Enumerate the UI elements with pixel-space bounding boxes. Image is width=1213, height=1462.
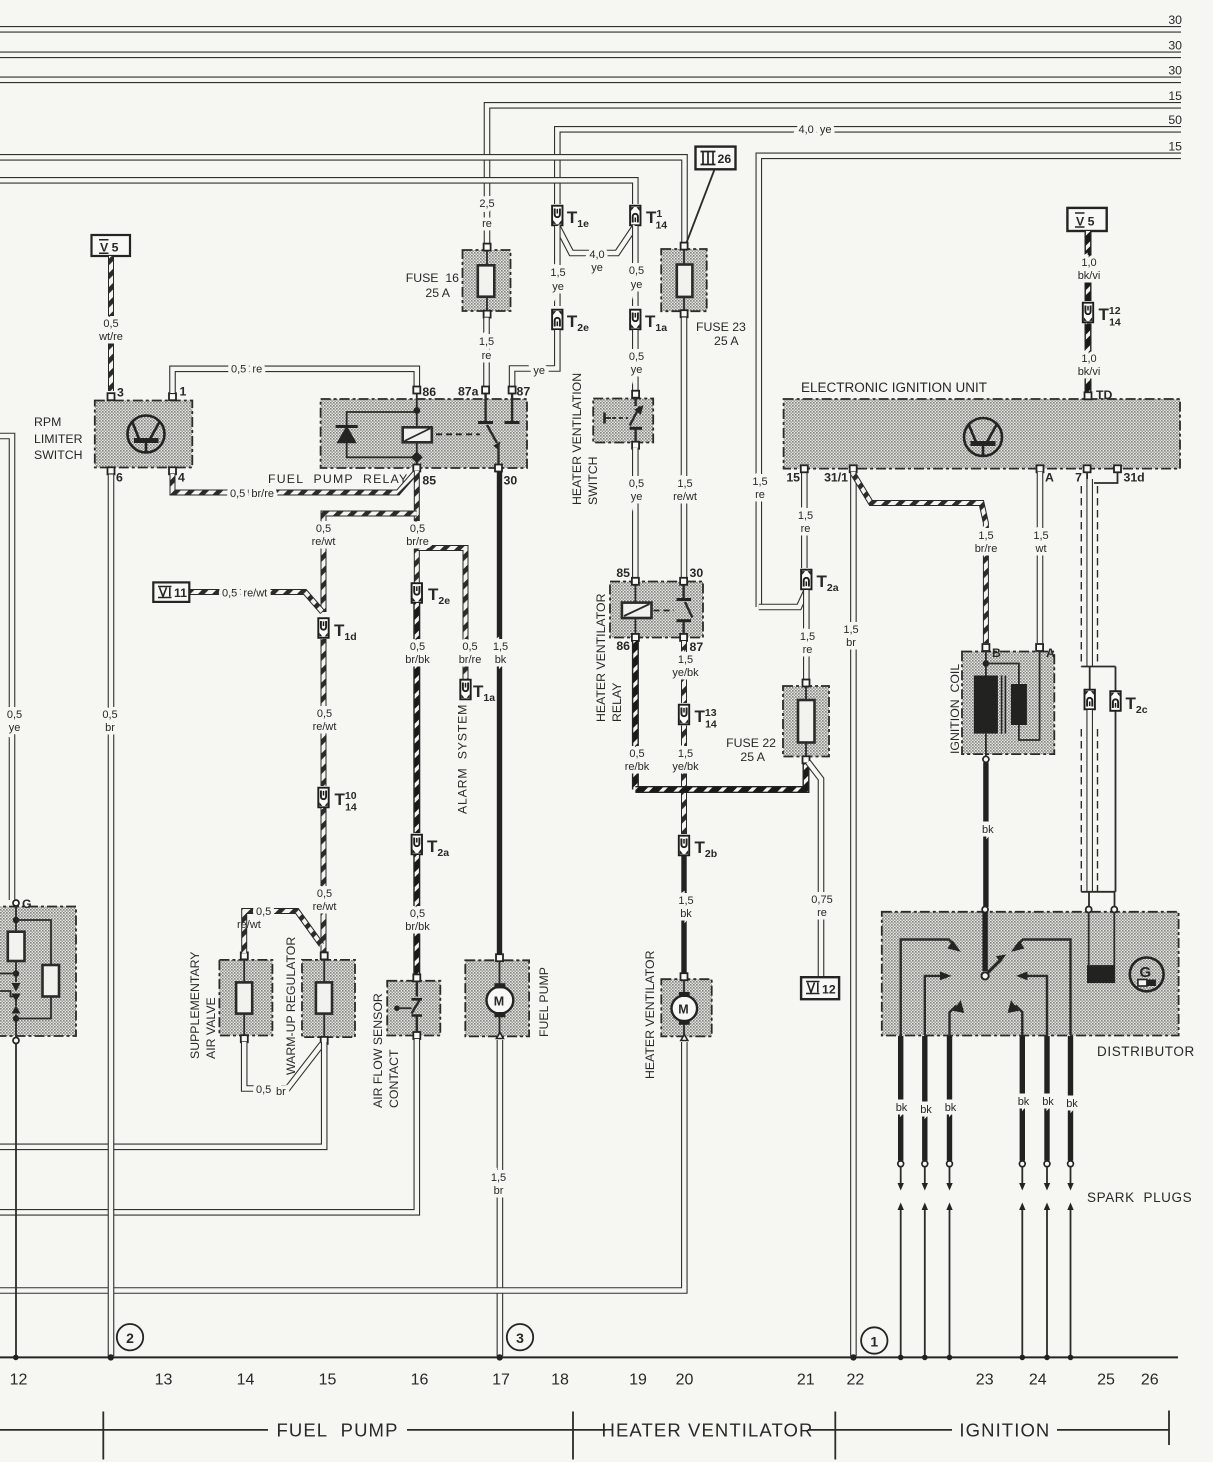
svg-text:24: 24	[1029, 1372, 1047, 1389]
svg-text:bk: bk	[896, 1102, 908, 1114]
wire 1,5 re/wt fuse23 to relay 30	[681, 318, 688, 579]
svg-text:25 A: 25 A	[425, 286, 450, 300]
svg-text:FUEL PUMP: FUEL PUMP	[276, 1420, 398, 1441]
svg-text:FUSE 23: FUSE 23	[696, 320, 746, 334]
svg-text:ye: ye	[9, 722, 21, 734]
bus 30 (pair 2)	[0, 51, 1181, 58]
svg-text:re: re	[803, 644, 813, 656]
svg-text:T2a: T2a	[427, 837, 449, 859]
svg-text:ye/bk: ye/bk	[672, 761, 699, 773]
svg-text:0,5: 0,5	[629, 351, 644, 363]
svg-text:re: re	[482, 218, 492, 230]
svg-text:ye: ye	[552, 281, 564, 293]
svg-text:HEATER VENTILATION: HEATER VENTILATION	[570, 373, 584, 505]
idle stabilizer box (left edge)	[0, 897, 76, 1044]
svg-text:re/bk: re/bk	[625, 761, 650, 773]
svg-text:re/wt: re/wt	[313, 901, 337, 913]
svg-text:B: B	[992, 646, 1001, 660]
wire branch loop to T1a alarm	[417, 548, 466, 679]
svg-text:SWITCH: SWITCH	[34, 448, 83, 462]
svg-text:ELECTRONIC IGNITION UNIT: ELECTRONIC IGNITION UNIT	[801, 380, 987, 395]
wire 0,5 re/wt from VI11 to T1d	[190, 592, 323, 612]
ground reference 1	[861, 1327, 887, 1353]
svg-text:0,5: 0,5	[629, 478, 644, 490]
svg-text:IGNITION: IGNITION	[959, 1420, 1050, 1441]
svg-text:re: re	[755, 489, 765, 501]
svg-text:bk: bk	[1042, 1096, 1054, 1108]
svg-text:87: 87	[517, 385, 531, 399]
fuel pump relay box	[268, 399, 527, 486]
svg-text:re: re	[482, 350, 492, 362]
svg-text:1,5: 1,5	[978, 530, 993, 542]
wire 0,5 br/bk from T2e down to T2a	[413, 603, 420, 833]
svg-text:11: 11	[174, 586, 187, 600]
ground rail junction dots	[13, 1354, 1073, 1360]
svg-text:0,5: 0,5	[256, 1084, 271, 1096]
svg-text:HEATER VENTILATOR: HEATER VENTILATOR	[594, 593, 608, 722]
svg-text:25 A: 25 A	[714, 334, 739, 348]
svg-text:12: 12	[822, 983, 836, 997]
svg-text:br/re: br/re	[975, 543, 998, 555]
connector T2c (pair)	[1085, 690, 1095, 710]
heater ventilation switch box	[593, 391, 653, 449]
svg-text:ye: ye	[591, 262, 603, 274]
svg-text:87a: 87a	[458, 385, 479, 399]
svg-text:4,0: 4,0	[589, 249, 604, 261]
connector T2b	[679, 836, 689, 856]
wire 1,5 ye/bk from relay 87 to T14-13	[681, 641, 687, 703]
svg-text:0,5: 0,5	[410, 641, 425, 653]
heater ventilator box	[643, 950, 712, 1079]
wire from III26 to fuse 23 top	[686, 170, 715, 245]
svg-text:AIR FLOW SENSOR: AIR FLOW SENSOR	[371, 993, 385, 1108]
svg-text:1,5: 1,5	[678, 654, 693, 666]
heater ventilator relay coil	[622, 585, 652, 634]
svg-text:FUSE 22: FUSE 22	[726, 736, 776, 750]
connector plug III26	[696, 147, 736, 170]
svg-text:87: 87	[690, 640, 704, 654]
connector T14-12	[1083, 303, 1093, 323]
air flow sensor contact box	[371, 974, 440, 1108]
svg-text:13: 13	[155, 1372, 173, 1389]
svg-text:0,5: 0,5	[462, 641, 477, 653]
section bracket ignition	[835, 1411, 1169, 1460]
svg-text:86: 86	[616, 639, 630, 653]
svg-text:4,0 ye: 4,0 ye	[798, 124, 831, 136]
svg-text:T1e: T1e	[567, 208, 589, 230]
svg-text:RELAY: RELAY	[610, 683, 624, 722]
heater ventilator relay contact	[654, 585, 693, 634]
svg-text:3: 3	[117, 386, 124, 400]
svg-text:T2e: T2e	[428, 585, 450, 607]
svg-text:FUEL PUMP: FUEL PUMP	[537, 967, 551, 1037]
connector T1d	[318, 618, 328, 638]
svg-text:bk/vi: bk/vi	[1078, 270, 1101, 282]
svg-text:ALARM SYSTEM: ALARM SYSTEM	[456, 704, 470, 814]
svg-text:50: 50	[1168, 113, 1182, 127]
svg-text:1,5: 1,5	[843, 624, 858, 636]
svg-text:17: 17	[492, 1372, 510, 1389]
heater ventilator motor	[672, 980, 698, 1041]
svg-text:RPM: RPM	[34, 415, 61, 429]
wire warm-up regulator return to left	[0, 1042, 324, 1147]
svg-text:T1a: T1a	[645, 312, 667, 334]
svg-text:br/bk: br/bk	[405, 654, 430, 666]
svg-text:bk/vi: bk/vi	[1078, 366, 1101, 378]
connector T14-13	[679, 705, 689, 725]
wire 1,5 br/re pin 31/1 to coil B	[853, 474, 986, 643]
wire 0,75 re fuse22 to VI12	[808, 762, 821, 976]
svg-text:br: br	[846, 637, 856, 649]
fuel pump motor	[487, 961, 514, 1039]
wire from idle stabilizer to ground rail	[15, 1044, 17, 1358]
svg-text:21: 21	[797, 1372, 815, 1389]
svg-text:T2b: T2b	[695, 838, 718, 860]
svg-text:LIMITER: LIMITER	[34, 432, 83, 446]
distributor condenser	[1087, 912, 1115, 983]
svg-text:AIR VALVE: AIR VALVE	[204, 997, 218, 1059]
svg-text:1,5: 1,5	[491, 1172, 506, 1184]
connector T2a (fuse22 column)	[801, 570, 811, 590]
wire air flow sensor return to left	[0, 1039, 417, 1212]
heater ventilation switch contact	[605, 398, 644, 442]
heater ventilator relay box	[610, 566, 703, 654]
svg-text:1,5: 1,5	[752, 476, 767, 488]
fuse F16	[406, 244, 511, 318]
fuse F22	[726, 680, 829, 765]
svg-text:19: 19	[629, 1372, 647, 1389]
wire 1,5 re from T2a to fuse 22	[803, 590, 810, 681]
svg-text:re/wt: re/wt	[312, 536, 336, 548]
connector T2a (air flow column)	[412, 835, 422, 855]
plug VI12	[801, 977, 839, 999]
svg-text:br: br	[276, 1086, 286, 1098]
svg-text:WARM-UP REGULATOR: WARM-UP REGULATOR	[284, 937, 298, 1075]
svg-text:7: 7	[1075, 471, 1082, 485]
wire 0,5 re/wt T1d to T14-10	[321, 639, 327, 786]
ground rail baseline	[0, 1356, 1178, 1358]
connector plug V5 (left)	[92, 235, 131, 256]
relay switch contact 87a-30	[436, 390, 520, 468]
connector T1e	[552, 206, 562, 226]
shielded bundle below T2c to distributor	[1081, 710, 1115, 906]
spark plugs arrows up from ground rail	[898, 1203, 1074, 1358]
svg-text:SPARK PLUGS: SPARK PLUGS	[1087, 1190, 1192, 1205]
connector T2e (fuse column)	[552, 310, 562, 330]
rpm limiter switch	[34, 385, 192, 485]
svg-text:1,5: 1,5	[678, 895, 693, 907]
relay pins	[413, 385, 530, 488]
svg-text:G: G	[22, 897, 32, 911]
distributor box	[882, 907, 1195, 1060]
distributor terminal paths with arrows	[901, 940, 1071, 1036]
bus 30 (pair 3)	[0, 77, 1181, 84]
svg-text:ye: ye	[631, 364, 643, 376]
wire 1,5 re EIU pin 15 down to T2a	[801, 472, 808, 568]
section bracket fuel pump	[0, 1412, 573, 1460]
svg-text:T2a: T2a	[817, 572, 839, 594]
spark gap arrows down	[898, 1168, 1074, 1191]
plug VI11	[153, 582, 189, 602]
svg-text:0,5: 0,5	[316, 523, 331, 535]
svg-text:T1d: T1d	[334, 621, 357, 643]
svg-text:br/re: br/re	[459, 654, 482, 666]
svg-text:26: 26	[718, 152, 732, 166]
svg-text:0,5: 0,5	[103, 318, 118, 330]
svg-text:12: 12	[10, 1372, 28, 1389]
svg-text:0,5: 0,5	[256, 906, 271, 918]
svg-text:14: 14	[237, 1372, 255, 1389]
supplementary air valve box	[188, 951, 272, 1059]
svg-text:30: 30	[1168, 39, 1182, 53]
section bracket heater ventilator	[573, 1412, 835, 1460]
svg-text:0,5: 0,5	[317, 888, 332, 900]
svg-text:T1214: T1214	[1099, 305, 1121, 329]
svg-text:1,5: 1,5	[493, 641, 508, 653]
connector T14-10	[318, 788, 328, 808]
svg-text:30: 30	[690, 566, 704, 580]
bus 50 (pair 5) with corner down to T1e	[557, 129, 1181, 204]
svg-text:V 5: V 5	[100, 241, 119, 255]
svg-text:0,5: 0,5	[317, 708, 332, 720]
svg-text:0,5: 0,5	[410, 908, 425, 920]
svg-text:25 A: 25 A	[740, 750, 765, 764]
wire 1,5 bk from T2b to heater ventilator	[681, 856, 686, 975]
ground reference 3	[507, 1324, 533, 1350]
svg-text:M: M	[494, 995, 504, 1009]
fuse F23	[661, 243, 746, 348]
svg-text:M: M	[678, 1003, 688, 1017]
svg-text:HEATER VENTILATOR: HEATER VENTILATOR	[643, 950, 657, 1079]
svg-text:SWITCH: SWITCH	[586, 457, 600, 506]
svg-text:wt/re: wt/re	[98, 331, 123, 343]
wire 0,5 ye from T1a to heater ventilation switch	[632, 330, 639, 394]
plug V5 (right)	[1067, 208, 1106, 231]
svg-text:T2c: T2c	[1126, 694, 1148, 716]
relay diode	[336, 412, 417, 457]
svg-text:bk: bk	[920, 1104, 932, 1116]
svg-text:ye: ye	[533, 365, 545, 377]
svg-text:re: re	[801, 523, 811, 535]
svg-text:85: 85	[616, 566, 630, 580]
svg-text:0,5 br/re: 0,5 br/re	[230, 488, 274, 500]
bus wire (pair 7) corner down to T14-1	[0, 180, 635, 204]
wire branch to T1d column	[324, 514, 417, 613]
svg-text:br/bk: br/bk	[405, 921, 430, 933]
svg-text:TD: TD	[1096, 388, 1113, 402]
svg-text:T1a: T1a	[473, 682, 495, 704]
svg-text:30: 30	[504, 474, 518, 488]
svg-text:1,5: 1,5	[550, 267, 565, 279]
svg-text:0,5: 0,5	[102, 709, 117, 721]
ground reference 2	[117, 1324, 143, 1350]
svg-text:30: 30	[1168, 64, 1182, 78]
svg-text:bk: bk	[982, 824, 994, 836]
svg-text:wt: wt	[1035, 543, 1047, 555]
wire 1,5 ye/bk from T14-13 down to T2b	[681, 726, 687, 835]
wire 0,5 br air valve bottom link	[244, 1042, 322, 1089]
svg-text:0,5 re: 0,5 re	[231, 364, 262, 376]
ignition coil box	[948, 644, 1055, 762]
connector T2e (85 column)	[412, 583, 422, 603]
svg-text:3: 3	[516, 1330, 524, 1346]
svg-text:1: 1	[180, 385, 187, 399]
svg-text:br: br	[105, 722, 115, 734]
svg-text:1,0: 1,0	[1081, 353, 1096, 365]
wire 0,5 ye switch to relay 85	[632, 448, 639, 578]
svg-text:T114: T114	[646, 208, 667, 232]
shielded bundle from pins 7 and 31d	[1081, 472, 1117, 691]
connector T14-1	[630, 206, 640, 226]
svg-text:30: 30	[1168, 13, 1182, 27]
svg-text:0,5: 0,5	[629, 748, 644, 760]
svg-text:re/wt: re/wt	[313, 721, 337, 733]
svg-text:15: 15	[1168, 89, 1182, 103]
wire 1,5 ye from T2e to relay pin 87	[512, 330, 557, 387]
wire bk coil to distributor	[983, 763, 988, 908]
svg-text:bk: bk	[1018, 1096, 1030, 1108]
svg-text:T1314: T1314	[695, 707, 717, 731]
svg-text:G: G	[1140, 964, 1152, 981]
connector T1a (alarm)	[460, 680, 470, 700]
svg-text:bk: bk	[945, 1102, 957, 1114]
svg-text:0,5: 0,5	[7, 709, 22, 721]
svg-text:0,5: 0,5	[629, 265, 644, 277]
wire 0,5 re from RPM pin 1 to relay pin 86	[173, 369, 417, 393]
spark wire end terminals	[898, 1161, 1074, 1167]
svg-text:bk: bk	[1066, 1098, 1078, 1110]
wire 0,5 re/bk from relay 86 down	[632, 641, 639, 790]
svg-text:26: 26	[1141, 1372, 1159, 1389]
svg-text:CONTACT: CONTACT	[387, 1049, 401, 1108]
svg-text:br/re: br/re	[406, 536, 429, 548]
wire 0,5 wt/re from V5 to RPM pin 3	[108, 256, 114, 391]
current track numbers	[10, 1372, 1159, 1389]
spark wire labels bk	[896, 1096, 1079, 1116]
svg-text:15: 15	[1168, 140, 1182, 154]
svg-text:1,5: 1,5	[479, 336, 494, 348]
wire 0,5 br RPM pin 6 to ground rail	[108, 475, 115, 1357]
wire 0,5 re/wt air valve top link	[244, 911, 321, 953]
wire 1,0 bk/vi from T14-12 to TD	[1085, 324, 1092, 393]
svg-text:ye/bk: ye/bk	[672, 667, 699, 679]
svg-text:0,5: 0,5	[410, 523, 425, 535]
wire heater ventilator return to left	[0, 1042, 684, 1291]
svg-text:re: re	[817, 907, 827, 919]
wire 1,5 bk from relay pin 30 to fuel pump	[497, 472, 502, 957]
svg-text:A: A	[1046, 646, 1055, 660]
svg-text:20: 20	[676, 1372, 694, 1389]
svg-text:15: 15	[319, 1372, 337, 1389]
svg-text:re/wt: re/wt	[673, 491, 697, 503]
svg-text:HEATER VENTILATOR: HEATER VENTILATOR	[602, 1420, 814, 1441]
svg-text:15: 15	[786, 471, 800, 485]
bus 15 (pair 6 right) corner down toward T2a	[759, 156, 1181, 607]
svg-text:0,5 re/wt: 0,5 re/wt	[222, 588, 267, 600]
warm-up regulator box	[284, 937, 355, 1075]
svg-text:85: 85	[422, 474, 436, 488]
svg-text:SUPPLEMENTARY: SUPPLEMENTARY	[188, 951, 202, 1059]
svg-text:22: 22	[847, 1372, 865, 1389]
svg-text:1,5: 1,5	[1033, 530, 1048, 542]
wire branch 85 column down	[414, 471, 420, 583]
svg-text:16: 16	[411, 1372, 429, 1389]
svg-text:0,75: 0,75	[811, 894, 832, 906]
wire 1,5 br fuel pump return to ground rail	[497, 1040, 504, 1356]
svg-text:bk: bk	[680, 908, 692, 920]
svg-text:86: 86	[422, 385, 436, 399]
svg-text:A: A	[1045, 471, 1054, 485]
electronic ignition unit box	[784, 380, 1180, 485]
wire 1,5 re from fuse16 to relay pin 87a	[483, 318, 490, 387]
svg-text:31d: 31d	[1124, 471, 1145, 485]
svg-text:1,5: 1,5	[678, 748, 693, 760]
svg-text:T1014: T1014	[335, 790, 357, 814]
wire 0,5 ye from left edge to idle stabilizer G	[0, 436, 12, 900]
svg-text:2: 2	[126, 1330, 134, 1346]
wire 1,5 br from pin 31/1 to ground rail	[850, 472, 857, 1356]
wire 0,5 br/bk from T2a to air flow sensor	[413, 855, 420, 977]
svg-text:31/1: 31/1	[824, 471, 848, 485]
svg-text:DISTRIBUTOR: DISTRIBUTOR	[1097, 1044, 1195, 1059]
svg-text:2,5: 2,5	[479, 198, 494, 210]
bus 15 (pair 6 left) corner down to fuse 23	[0, 157, 685, 244]
wire 1,0 bk/vi from V5 to T14-12	[1085, 231, 1092, 301]
svg-text:6: 6	[116, 471, 123, 485]
svg-text:FUSE 16: FUSE 16	[406, 271, 459, 285]
svg-text:23: 23	[976, 1372, 994, 1389]
hatched link wire fuse22 to 86-wire	[635, 760, 806, 790]
svg-text:1,5: 1,5	[798, 510, 813, 522]
svg-text:4: 4	[178, 471, 185, 485]
wire 0,5 ye from T14-1 down to T1a	[632, 226, 639, 306]
crossover wire 4,0 ye between T1e and T14-1	[557, 226, 595, 253]
wire 1,5 ye from T1e down to T2e	[554, 226, 561, 306]
svg-text:re/wt: re/wt	[237, 919, 261, 931]
wire 0,5 br/re RPM pin 4 to relay pin 85	[173, 473, 416, 493]
fuel pump box	[465, 954, 551, 1037]
svg-text:IGNITION COIL: IGNITION COIL	[948, 664, 962, 754]
svg-text:1,0: 1,0	[1081, 257, 1096, 269]
air flow sensor contact symbol	[394, 981, 422, 1032]
svg-text:18: 18	[551, 1372, 569, 1389]
svg-text:FUEL PUMP RELAY: FUEL PUMP RELAY	[268, 472, 408, 486]
wire 0,5 re/wt T14-10 to warm-up regulator	[321, 808, 327, 954]
spark plug wires bk	[901, 1036, 1071, 1161]
bus 30 (pair 1)	[0, 26, 1181, 33]
generator mark G	[1130, 958, 1164, 992]
svg-text:T2e: T2e	[567, 312, 589, 334]
connector T1a (switch column)	[630, 310, 640, 330]
svg-text:br: br	[494, 1185, 504, 1197]
svg-text:bk: bk	[495, 654, 507, 666]
svg-text:ye: ye	[631, 279, 643, 291]
svg-text:1: 1	[870, 1334, 878, 1350]
distributor rotor	[982, 912, 1007, 980]
relay coil	[403, 390, 432, 468]
svg-text:ye: ye	[631, 491, 643, 503]
svg-text:25: 25	[1097, 1372, 1115, 1389]
bus 15 (pair 4) with corner down to fuse 16	[487, 105, 1181, 246]
svg-text:1,5: 1,5	[800, 631, 815, 643]
wire 1,5 wt pin A to coil A	[1037, 472, 1044, 643]
svg-text:1,5: 1,5	[677, 478, 692, 490]
